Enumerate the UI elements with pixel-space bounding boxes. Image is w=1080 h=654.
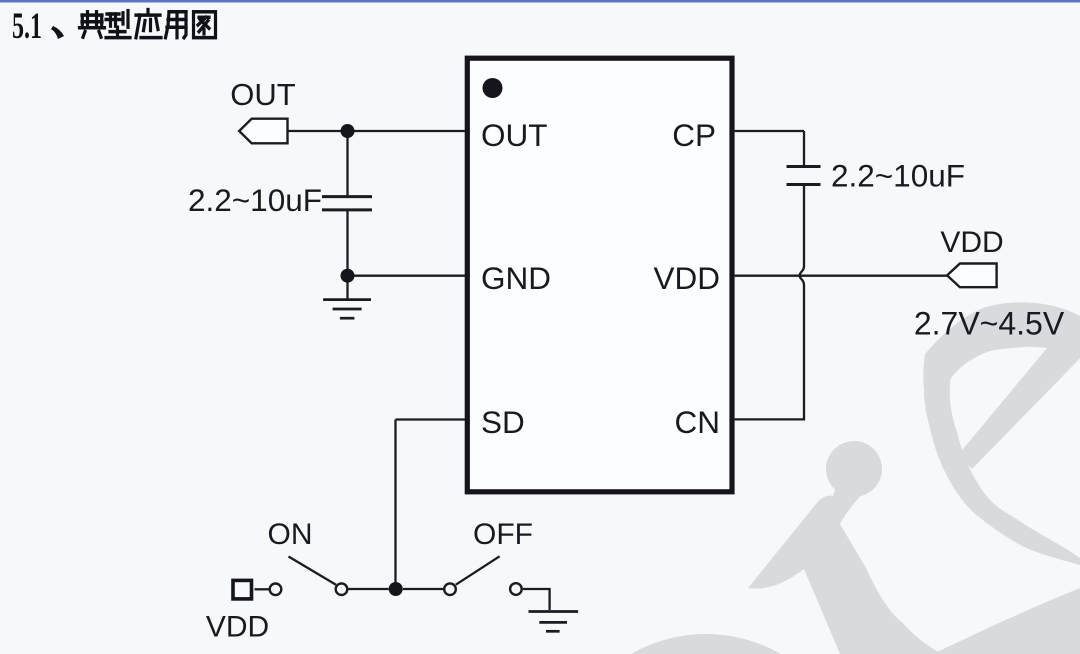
terminal OUT <box>239 119 287 144</box>
switch OFF blade <box>456 556 500 584</box>
svg-text:VDD: VDD <box>653 260 720 296</box>
wire ground stub <box>346 276 348 299</box>
wire SD pin horizontal <box>396 418 466 420</box>
wire OFF circle to ground <box>523 589 550 610</box>
wire switch to ON pole <box>348 588 388 590</box>
wire GND pin <box>348 275 466 277</box>
watermark letter r <box>748 466 940 654</box>
svg-text:2.7V~4.5V: 2.7V~4.5V <box>914 306 1065 342</box>
ground contact circle <box>510 583 522 595</box>
svg-text:2.2~10uF: 2.2~10uF <box>188 182 322 218</box>
wire OUT pin to terminal <box>288 130 466 132</box>
capacitor C2 <box>787 167 821 185</box>
switch ON blade <box>289 557 337 585</box>
wire C1 vertical top <box>346 131 348 196</box>
watermark <box>556 302 1080 654</box>
svg-text:CN: CN <box>675 404 721 440</box>
wire VDD pin to terminal <box>735 275 948 277</box>
svg-text:OFF: OFF <box>473 518 533 551</box>
wire C2 to CN with crossover jog <box>735 185 804 419</box>
ground symbol GND2 <box>529 612 579 632</box>
svg-text:OUT: OUT <box>481 117 548 153</box>
wire CP pin <box>735 130 804 132</box>
char yong <box>166 12 187 38</box>
terminal VDD square <box>233 580 252 599</box>
svg-text:SD: SD <box>481 404 525 440</box>
title chinese characters 典型应用图 <box>80 10 216 38</box>
IC body U1 <box>467 58 732 492</box>
wire VDD square to circle <box>255 588 269 590</box>
char dian <box>80 12 105 37</box>
wire switch to OFF pole <box>403 588 443 590</box>
pin 1 marker dot <box>483 78 503 98</box>
char tu <box>194 12 216 38</box>
terminal VDD right <box>947 264 997 288</box>
switch SW1 junction dot <box>389 582 403 596</box>
watermark letter e (bowl band) <box>923 302 1080 565</box>
watermark letter o (bottom arc) <box>556 634 856 654</box>
svg-text:VDD: VDD <box>206 611 269 644</box>
svg-text:CP: CP <box>672 117 716 153</box>
watermark letter e (crossbar) <box>958 318 1080 469</box>
svg-text:2.2~10uF: 2.2~10uF <box>831 158 965 194</box>
watermark next letter top (bottom-right corner) <box>933 588 1080 654</box>
wire C1 vertical bottom <box>346 211 348 276</box>
switch ON pole circle <box>336 583 348 595</box>
blue header rule <box>0 0 1080 3</box>
svg-text:GND: GND <box>481 260 551 296</box>
ideographic comma <box>51 26 64 39</box>
svg-text:VDD: VDD <box>940 226 1003 259</box>
char xing <box>106 11 130 38</box>
switch OFF pole circle <box>444 583 456 595</box>
pin labels <box>481 117 720 440</box>
wire SD vertical <box>394 420 396 590</box>
svg-text:5.1: 5.1 <box>12 6 42 47</box>
capacitor C1 <box>322 197 372 210</box>
char ying <box>136 10 161 38</box>
svg-text:OUT: OUT <box>230 77 296 112</box>
svg-text:ON: ON <box>268 518 313 551</box>
VDD square contact circle <box>270 584 282 596</box>
wire C2 vertical top <box>803 131 805 166</box>
junction dot node GND <box>341 269 355 283</box>
junction dot node OUT <box>341 124 355 138</box>
ground symbol GND1 <box>323 300 371 319</box>
